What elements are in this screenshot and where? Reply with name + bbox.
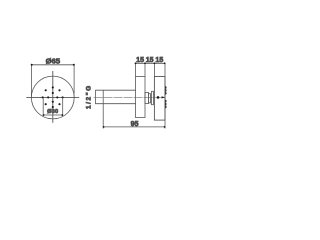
- dimension 15 15 15 (top of side view): [135, 57, 166, 129]
- svg-text:95: 95: [131, 121, 139, 128]
- svg-text:Ø65: Ø65: [46, 56, 61, 65]
- head center dot: [157, 96, 160, 99]
- side view centerline: [94, 96, 165, 98]
- inner ring of 4 nozzle holes: [47, 92, 58, 103]
- collar ring: [152, 91, 154, 104]
- front view face circle Ø65: [31, 76, 74, 119]
- dimension Ø30 (front, hole circle): [43, 98, 64, 117]
- inlet pipe body: [96, 90, 137, 104]
- svg-text:Ø30: Ø30: [47, 109, 58, 115]
- svg-text:1/2"G: 1/2"G: [85, 84, 92, 109]
- horizontal centerline: [26, 96, 79, 98]
- svg-text:15: 15: [136, 57, 144, 64]
- svg-text:15: 15: [155, 57, 163, 64]
- nozzle bumps on face: [165, 86, 166, 108]
- dimension Ø65 (front): [31, 56, 75, 96]
- spray head disc: [154, 77, 165, 121]
- wall flange: [136, 77, 146, 118]
- vertical centerline: [52, 71, 54, 123]
- neck cylinder: [145, 92, 148, 103]
- dimension 95 (bottom of side view): [103, 90, 166, 128]
- flow arrow: [162, 96, 165, 98]
- washer step: [148, 94, 150, 103]
- outer ring of 8 nozzle holes: [42, 86, 64, 108]
- svg-text:15: 15: [146, 57, 154, 64]
